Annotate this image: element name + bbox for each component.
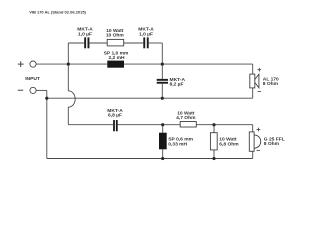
wire C3 bottom to minus rail [161,84,163,99]
node bottom rail / R3 [212,157,215,160]
svg-text:6,8 Ohm: 6,8 Ohm [219,141,239,147]
speaker AL 170 woofer [250,74,259,88]
wire top rail right [124,63,253,65]
svg-text:INPUT: INPUT [25,76,40,82]
minus sign input [18,89,23,91]
svg-text:8 Ohm: 8 Ohm [264,141,280,147]
wire minus input vertical to bottom rail [46,90,48,158]
svg-text:4,7 Ohm: 4,7 Ohm [176,115,196,121]
wire tweeter top drop [252,125,254,132]
wire lower branch to C4 [68,124,113,126]
wire bottom rail [47,158,253,160]
wire L2 bottom to rail [162,149,164,158]
resistor R2 10W 4.7Ohm [180,122,196,128]
wire R1 to C2 [124,42,144,44]
svg-text:1,0 µF: 1,0 µF [139,32,153,38]
wire riser to RC branch [67,43,69,64]
node minus rail / C3 [161,97,164,100]
svg-text:0,33 mH: 0,33 mH [168,141,187,147]
capacitor C2 MKT-A 1.0uF [143,37,148,48]
plus sign input [18,61,24,67]
wire R2 to corner [196,124,252,126]
wire branch drop to rail [161,43,163,64]
terminal - input [30,87,36,93]
minus sign tweeter [257,150,260,152]
wire C1 to R1 [89,42,107,44]
svg-text:VIB 170 AL (Stand 02.06.2015): VIB 170 AL (Stand 02.06.2015) [29,9,86,14]
node bottom rail / L2 [161,157,164,160]
minus sign woofer [258,91,261,93]
wire node to L2 top [162,125,164,133]
resistor R3 10W 6.8Ohm [210,133,217,150]
svg-text:10 Ohm: 10 Ohm [106,33,125,39]
junction dots [45,63,215,161]
inductor L2 SP 0.6mm 0.33mH [159,133,167,150]
wire top rail left [36,63,107,65]
wire tweeter bottom drop [252,151,254,158]
wire R3 bottom to rail [213,150,215,159]
wire C2 to corner [149,42,163,44]
capacitor C1 MKT-A 1.0uF [84,37,89,48]
wire woofer bottom drop [252,88,254,98]
svg-text:6,8 µF: 6,8 µF [108,112,122,118]
wire C4 to node [118,124,181,126]
wire feed down with hop over minus rail [68,64,75,125]
wire branch to C1 [68,42,84,44]
wire node to C3 top [161,64,163,79]
resistor R1 10W 10Ohm [107,39,124,46]
svg-text:1,0 µF: 1,0 µF [78,32,92,38]
speaker G 25 FFL tweeter [249,132,260,151]
capacitor C4 MKT-A 6.8uF [113,120,118,131]
wire minus rail [47,97,253,99]
terminal + input [30,61,36,67]
node minus input tee [45,97,48,100]
plus sign tweeter [257,128,261,132]
node branch / R3 [212,123,215,126]
svg-text:8,2 µF: 8,2 µF [170,82,184,88]
plus sign woofer [257,68,261,72]
node top rail / C3 [161,63,164,66]
capacitor C3 MKT-A 8.2uF [157,79,168,84]
node top rail / riser [67,63,70,66]
wire node to R3 top [213,125,215,133]
inductor L1 SP 1.0mm 2.2mH [107,61,124,68]
wire woofer top drop [252,64,254,74]
svg-text:2,2 mH: 2,2 mH [108,55,125,61]
wire minus input horizontal [36,89,47,91]
svg-text:8 Ohm: 8 Ohm [263,81,279,87]
node branch / L2 [161,123,164,126]
